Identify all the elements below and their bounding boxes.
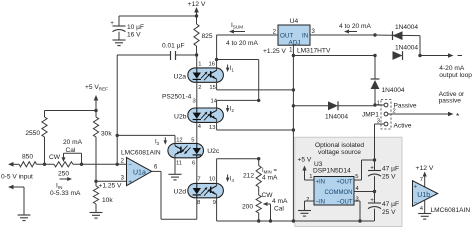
svg-text:5: 5 <box>355 174 358 180</box>
JMP1 pin 2 wire <box>388 111 460 121</box>
svg-text:U2c: U2c <box>207 148 220 155</box>
wire U2a pin 1 <box>196 55 198 69</box>
op-amp U1a <box>121 150 161 187</box>
svg-text:+IN: +IN <box>316 180 326 186</box>
svg-text:2550: 2550 <box>25 130 40 137</box>
svg-text:U2a: U2a <box>174 73 187 80</box>
wire U2d pin 9 to rail <box>216 198 218 221</box>
U2d pin labels <box>197 177 216 206</box>
wire bottom rail <box>217 219 375 222</box>
svg-text:1: 1 <box>309 174 312 180</box>
capacitor 0.01 µF <box>117 43 197 61</box>
ground (U2c emitter) <box>169 174 182 180</box>
ground (U1b) <box>418 214 431 220</box>
optocoupler U2a <box>174 68 224 82</box>
wire pot to U1a pin 2 <box>73 163 127 166</box>
diode 1N4004 (vertical, pointing up) <box>371 79 405 94</box>
output loop arrow <box>420 53 462 58</box>
svg-text:Passive: Passive <box>394 102 417 109</box>
U1a pin 6 output wire <box>152 165 197 220</box>
node diode junction <box>373 54 376 57</box>
wire +12 V rail <box>119 14 198 17</box>
svg-text:47 µF: 47 µF <box>382 166 399 173</box>
label I4 <box>226 175 235 183</box>
wire U2d pin 8 to output <box>196 198 198 220</box>
svg-text:IN: IN <box>302 33 309 40</box>
U4 pin 3 wire (IN) <box>310 29 377 37</box>
svg-text:Active: Active <box>394 122 412 129</box>
optional isolated voltage source box <box>295 137 402 226</box>
svg-text:11: 11 <box>176 161 182 167</box>
wire U2c pin 12 collector <box>174 136 176 144</box>
svg-text:ADJ: ADJ <box>289 39 301 46</box>
label +1.25 V (U4) <box>263 48 287 55</box>
optocoupler U2d <box>174 183 224 197</box>
svg-text:4 to 20 mA: 4 to 20 mA <box>339 23 371 30</box>
dc-dc converter U3 DSP1N5D14 <box>313 161 354 206</box>
svg-text:+: + <box>370 197 374 204</box>
svg-text:47 µF: 47 µF <box>382 201 399 208</box>
label ISUM <box>229 22 245 34</box>
svg-text:+: + <box>128 179 132 186</box>
wire U2a pin 16 branch to pin 14 node <box>217 60 259 101</box>
U1a pin 3 label <box>121 175 125 181</box>
svg-text:0-5 V input: 0-5 V input <box>1 174 33 181</box>
power +12 V (U1b) <box>416 165 434 187</box>
U4 pin 1 wire (ADJ) <box>289 45 295 57</box>
svg-text:5: 5 <box>191 137 194 143</box>
svg-text:LMC6081AIN: LMC6081AIN <box>431 207 471 214</box>
U2b pin labels <box>192 99 217 132</box>
JMP1 pin 1 stub <box>375 104 384 106</box>
label Passive <box>394 102 417 109</box>
wire U2d pin 10 collector <box>217 157 261 184</box>
resistor 212 (IMIN) <box>243 159 278 195</box>
svg-text:voltage source: voltage source <box>318 149 361 156</box>
regulator U4 LM317HTV <box>278 18 331 54</box>
U3 pin 2 wire (-IN) <box>305 197 315 211</box>
U1b pin 4 wire <box>420 200 425 214</box>
svg-text:I1: I1 <box>230 66 235 73</box>
svg-text:COMMON: COMMON <box>325 190 353 196</box>
U1a pin 3 wire <box>96 180 127 182</box>
label 4 to 20 mA (left) <box>226 40 258 47</box>
ground (10 µF cap) <box>113 40 126 46</box>
svg-text:0.01 µF: 0.01 µF <box>162 43 185 50</box>
svg-text:DSP1N5D14: DSP1N5D14 <box>313 168 351 175</box>
svg-text:10: 10 <box>209 177 215 183</box>
svg-text:+1.25 V: +1.25 V <box>99 183 123 190</box>
svg-text:6: 6 <box>192 161 195 167</box>
svg-text:825: 825 <box>202 33 213 40</box>
U3 pin 5 wire (+OUT) <box>354 160 375 180</box>
wire diode junction down <box>374 56 376 80</box>
svg-text:I3: I3 <box>155 140 160 147</box>
potentiometer 250 (20 mA Cal) <box>49 139 83 178</box>
input terminal 0-5 V <box>1 162 33 181</box>
U3 pin 4 wire (COMMON) <box>354 186 375 192</box>
svg-text:1N4004: 1N4004 <box>325 113 348 120</box>
wire +5 VREF rail <box>45 109 98 112</box>
capacitor 47 µF 25 V (lower) <box>368 192 399 222</box>
wire U2c pin 11 emitter to ground <box>174 158 176 175</box>
wire U4 OUT to U2a pin 16 <box>215 35 218 69</box>
svg-text:850: 850 <box>22 154 33 161</box>
svg-text:1N4004: 1N4004 <box>382 87 405 94</box>
U1a pin 2 label <box>121 158 125 164</box>
svg-text:U2d: U2d <box>174 189 187 196</box>
wire U2a pin 15 emitter <box>217 82 294 90</box>
node +1.25 V <box>94 180 122 190</box>
svg-text:+5 V: +5 V <box>298 157 312 164</box>
wire U2c pin 6 to U2d pin 7 <box>196 158 198 184</box>
svg-text:212: 212 <box>243 173 254 180</box>
svg-text:Cal: Cal <box>66 147 76 154</box>
label Active <box>394 122 412 129</box>
label Active or passive <box>439 91 465 105</box>
diode 1N4004 (upper, pointing left) <box>393 24 419 40</box>
svg-text:2: 2 <box>198 85 201 91</box>
resistor 825 <box>194 16 213 55</box>
power +5 VREF <box>85 84 108 111</box>
svg-text:+1.25 V: +1.25 V <box>263 48 287 55</box>
svg-text:1: 1 <box>377 101 380 107</box>
resistor 2550 <box>25 111 47 165</box>
svg-text:13: 13 <box>209 125 215 131</box>
svg-text:10 µF: 10 µF <box>127 24 144 31</box>
op-amp U1b <box>413 181 438 207</box>
wire U2b pin 14 collector <box>217 99 261 108</box>
label I1 <box>226 65 235 73</box>
U1b pin 7 label <box>420 177 423 183</box>
svg-text:25 V: 25 V <box>382 174 396 181</box>
svg-text:CW: CW <box>49 154 61 161</box>
svg-text:10k: 10k <box>102 197 113 204</box>
U3 pin 3 wire (-OUT) <box>354 197 360 222</box>
svg-text:+12 V: +12 V <box>416 165 434 172</box>
svg-text:passive: passive <box>439 97 462 104</box>
wire IN-row to diode pair <box>375 34 420 37</box>
power +12 V <box>188 1 206 16</box>
svg-text:I4: I4 <box>230 176 235 183</box>
svg-text:+: + <box>370 164 374 171</box>
svg-text:U1b: U1b <box>417 192 430 199</box>
wire U2a pin 2 to U2b pin 3 <box>196 82 198 109</box>
wire ADJ vertical <box>292 56 295 222</box>
svg-text:1N4004: 1N4004 <box>395 45 418 52</box>
svg-text:U4: U4 <box>290 18 299 25</box>
svg-text:+OUT: +OUT <box>336 180 353 186</box>
svg-text:9: 9 <box>213 200 216 206</box>
ground (input) <box>18 215 31 221</box>
label I3 <box>155 137 167 146</box>
capacitor 10 µF 16 V <box>110 16 144 40</box>
wire diode to JMP node <box>338 105 375 107</box>
resistor 10k <box>93 181 113 212</box>
svg-text:−: − <box>128 162 132 169</box>
node feedback junction <box>116 134 119 137</box>
svg-text:PS2501-4: PS2501-4 <box>162 94 192 101</box>
svg-text:12: 12 <box>176 137 182 143</box>
label +5 V (isolated) <box>298 157 312 181</box>
diode 1N4004 (horizontal, pointing right) <box>325 101 348 120</box>
svg-text:4 mA: 4 mA <box>262 175 278 182</box>
svg-text:output loop: output loop <box>439 72 472 79</box>
ground (U3 -IN) <box>298 211 311 217</box>
svg-text:+: + <box>414 185 418 191</box>
optocoupler U2b <box>174 108 223 122</box>
svg-text:−IN: −IN <box>316 200 326 206</box>
svg-text:+12 V: +12 V <box>188 1 206 8</box>
svg-text:JMP1: JMP1 <box>362 111 379 118</box>
U2c pin labels <box>176 137 195 166</box>
svg-text:0-5.33 mA: 0-5.33 mA <box>50 190 81 197</box>
svg-text:Cal: Cal <box>274 206 284 213</box>
svg-text:4 to 20 mA: 4 to 20 mA <box>226 40 258 47</box>
svg-text:7: 7 <box>197 177 200 183</box>
wire ADJ to output row <box>293 55 375 57</box>
label 4-20 mA output loop <box>439 65 472 79</box>
svg-text:LM317HTV: LM317HTV <box>297 47 331 54</box>
wire ADJ node to diode <box>293 105 328 107</box>
label PS2501-4 <box>162 94 192 101</box>
svg-text:LMC6081AIN: LMC6081AIN <box>121 150 161 157</box>
svg-text:2: 2 <box>306 197 309 203</box>
wire 850 to pot <box>37 163 55 166</box>
label I2 <box>226 105 235 113</box>
svg-text:I2: I2 <box>230 106 235 113</box>
svg-text:25 V: 25 V <box>382 209 396 216</box>
wire U2b pin 13 emitter <box>217 122 294 130</box>
U4 pin 2 wire (OUT) <box>217 29 279 35</box>
svg-text:U1a: U1a <box>133 170 146 177</box>
svg-text:−OUT: −OUT <box>336 200 353 206</box>
wire diode pair right side <box>418 36 421 58</box>
JMP1 pin 3 wire <box>375 124 385 160</box>
svg-text:1: 1 <box>198 62 201 68</box>
svg-text:15: 15 <box>209 85 215 91</box>
wire compensation line (0.01 µF to inverting input) <box>116 55 118 164</box>
svg-text:3: 3 <box>192 99 195 105</box>
resistor 850 <box>19 154 37 167</box>
wire inverting input to U2c collector <box>117 134 175 136</box>
svg-text:−: − <box>414 201 418 207</box>
optocoupler U2c (mirrored) <box>168 143 220 157</box>
label 4 to 20 mA (right) <box>339 23 371 34</box>
resistor 30k <box>93 111 112 182</box>
svg-text:200: 200 <box>242 204 253 211</box>
svg-text:30k: 30k <box>101 131 112 138</box>
label IIN 0-5.33 mA <box>50 177 81 197</box>
wire U2b pin 4 to U2c pin 5 <box>196 122 198 143</box>
svg-text:8: 8 <box>197 200 200 206</box>
label LMC6081AIN (U1b) <box>431 207 471 214</box>
svg-text:U2b: U2b <box>174 113 187 120</box>
U3 pin 1 wire (+IN) <box>305 174 315 180</box>
node 825/U2a junction <box>195 53 198 56</box>
input ground terminal <box>8 185 24 215</box>
svg-text:+: + <box>110 20 114 27</box>
U2a pin labels <box>198 62 216 92</box>
ground (10k) <box>90 213 103 219</box>
wire diode to JMP1 node <box>373 89 376 107</box>
svg-text:16 V: 16 V <box>127 32 141 39</box>
svg-text:4 mA: 4 mA <box>272 198 288 205</box>
svg-text:250: 250 <box>58 171 69 178</box>
diode 1N4004 (lower, pointing right) <box>393 45 419 60</box>
svg-text:16: 16 <box>209 62 215 68</box>
potentiometer 200 (4 mA Cal) <box>242 192 288 221</box>
svg-text:20 mA: 20 mA <box>63 139 83 146</box>
capacitor 47 µF 25 V (upper) <box>368 158 399 193</box>
svg-text:7: 7 <box>420 177 423 183</box>
svg-text:1N4004: 1N4004 <box>395 24 418 31</box>
jumper JMP1 <box>362 100 396 130</box>
svg-text:3: 3 <box>356 197 359 203</box>
svg-text:=: = <box>274 168 278 174</box>
